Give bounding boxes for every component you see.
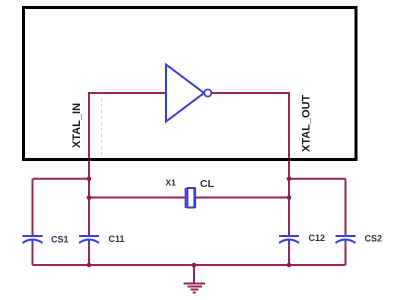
svg-text:X1: X1 (166, 178, 177, 188)
svg-text:C12: C12 (309, 233, 326, 243)
svg-text:XTAL_OUT: XTAL_OUT (301, 94, 313, 152)
svg-text:XTAL_IN: XTAL_IN (71, 103, 83, 148)
svg-text:CS1: CS1 (51, 235, 69, 245)
svg-text:CL: CL (200, 178, 215, 190)
svg-text:C11: C11 (109, 234, 125, 244)
svg-text:CS2: CS2 (365, 234, 383, 244)
